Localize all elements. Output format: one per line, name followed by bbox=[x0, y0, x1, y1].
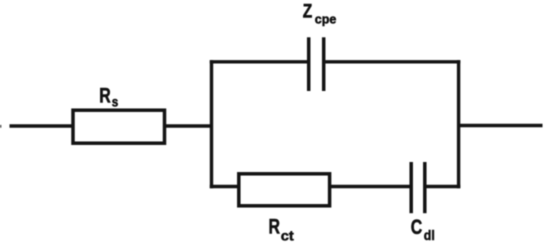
node A left rail bbox=[210, 60, 213, 188]
wire bottom branch left bbox=[210, 185, 240, 188]
node B right rail bbox=[457, 60, 460, 188]
capacitor C1 (Zcpe) left plate bbox=[307, 37, 311, 91]
wire Rs to node A bbox=[164, 124, 213, 127]
capacitor C2 (Cdl) right plate bbox=[423, 162, 427, 213]
wire Cdl to node B bbox=[425, 185, 461, 188]
wire top branch left bbox=[210, 60, 307, 63]
svg-text:R: R bbox=[269, 215, 281, 238]
resistor R2 (Rct) bbox=[239, 174, 330, 206]
wire Rct to Cdl bbox=[328, 185, 411, 188]
svg-text:C: C bbox=[411, 216, 423, 239]
wire left input bbox=[10, 124, 75, 127]
capacitor C2 (Cdl) left plate bbox=[409, 162, 413, 213]
capacitor C1 (Zcpe) right plate bbox=[322, 37, 326, 91]
resistor R1 (Rs) bbox=[73, 110, 165, 143]
svg-text:s: s bbox=[112, 93, 119, 109]
svg-text:cpe: cpe bbox=[315, 12, 337, 27]
svg-text:Z: Z bbox=[303, 2, 313, 23]
wire right output bbox=[457, 124, 543, 127]
wire top branch right bbox=[325, 60, 460, 63]
svg-text:R: R bbox=[99, 84, 111, 107]
label Rs bbox=[99, 84, 118, 109]
svg-text:ct: ct bbox=[281, 227, 294, 243]
label Zcpe bbox=[303, 2, 337, 27]
wire left edge stub bbox=[0, 125, 1, 128]
svg-text:dl: dl bbox=[424, 227, 435, 243]
label Rct bbox=[269, 215, 295, 243]
label Cdl bbox=[411, 216, 435, 243]
